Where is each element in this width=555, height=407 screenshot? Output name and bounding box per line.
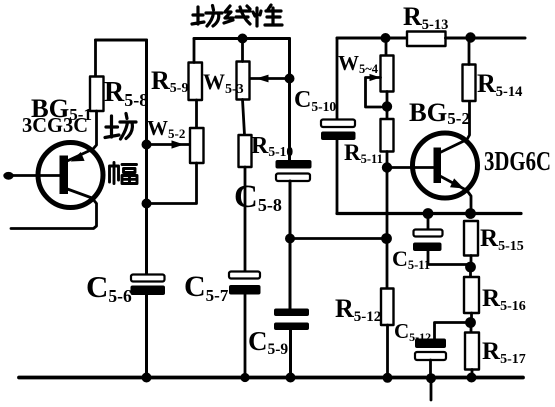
resistor R5-11 xyxy=(381,119,394,152)
wire emitter rail xyxy=(337,212,521,215)
resistor R5-12 xyxy=(381,289,394,326)
node R5-15/R5-16 junction xyxy=(465,262,476,273)
arrow W5-3 wiper arrowhead xyxy=(256,75,269,83)
wire R5-15 bottom lead xyxy=(470,256,473,268)
transistor BG5-2 base bar xyxy=(434,148,442,184)
wire R5-17 bottom lead xyxy=(471,370,474,378)
node W5-3 top junction xyxy=(238,34,248,44)
wire mid top rail R5-9/W5-3/C5-8 column xyxy=(194,37,290,40)
wire W5-4 wiper loop to bottom node xyxy=(366,78,382,108)
node ground C5-9 xyxy=(286,373,296,383)
wire W5-4 bottom lead xyxy=(386,92,389,107)
wire ground rail xyxy=(19,376,523,380)
capacitor C5-7 top plate (hollow) xyxy=(229,272,260,279)
wire R5-9 top lead xyxy=(193,39,196,63)
wire C5-10 column vertical xyxy=(336,38,339,120)
node ground C5-7 xyxy=(240,373,249,382)
wire R5-10 bottom to C5-7 xyxy=(244,167,247,272)
wire bias divider vertical (crosses emitter rail) xyxy=(386,168,389,239)
wire output stub below ground rail xyxy=(430,378,433,401)
resistor R5-13 (horizontal) xyxy=(407,32,446,47)
transistor BG5-2 circle xyxy=(413,133,478,198)
node input terminal blob xyxy=(3,172,13,180)
node W5-4 top junction xyxy=(381,33,391,43)
capacitor C5-10 bottom plate (solid) xyxy=(321,132,356,141)
resistor R5-17 xyxy=(465,333,479,370)
wire C5-11 top lead xyxy=(427,214,430,230)
svg-text:3CG3C: 3CG3C xyxy=(22,113,88,137)
capacitor C5-10 top plate (hollow) xyxy=(321,120,355,128)
node ground C5-12 xyxy=(426,373,436,383)
resistor R5-14 xyxy=(463,65,476,102)
wire BG5-2 emitter diagonal down to rail xyxy=(439,176,471,214)
capacitor C5-9 top plate (solid) xyxy=(274,309,309,317)
potentiometer W5-4 body xyxy=(381,56,394,92)
node R5-12 top junction xyxy=(381,233,392,244)
resistor R5-10 xyxy=(239,135,252,167)
wire C5-9 bottom to ground rail xyxy=(289,330,292,378)
node W5-2 bottom junction xyxy=(142,199,152,209)
wire R5-14 top lead xyxy=(468,38,471,65)
chinese title char 1 (fang) xyxy=(192,6,222,27)
resistor R5-16 xyxy=(464,277,479,313)
wire W5-3 bottom to R5-10 xyxy=(243,100,245,136)
wire BG5-1 collector diagonal down to lower-left wire xyxy=(11,189,97,229)
wire W5-2 wiper arm to node xyxy=(147,143,190,146)
wire R5-8 top lead xyxy=(94,40,97,77)
wire R5-9 to W5-2 xyxy=(195,100,198,128)
wire W5-3 top lead xyxy=(241,39,244,62)
chinese title char 3 (xing) xyxy=(253,5,282,26)
wire left mid vertical upper (rail to C5-6 top, through dots) xyxy=(145,40,148,275)
capacitor C5-9 bottom plate (solid) xyxy=(274,323,309,331)
node R5-16/R5-17 junction xyxy=(465,317,476,328)
wire BG5-2 collector diagonal up to R5-14 xyxy=(439,101,470,153)
wire C5-12 bottom to ground rail xyxy=(429,360,432,378)
node ground R5-17 xyxy=(467,373,477,383)
arrow W5-2 wiper arrowhead xyxy=(172,140,185,148)
capacitor C5-6 bottom plate (solid) xyxy=(131,286,166,296)
arrow BG5-1 emitter PNP arrowhead xyxy=(71,152,85,162)
wire R5-16 top lead xyxy=(469,267,472,277)
node emitter/R5-15 junction xyxy=(465,208,476,219)
node BG5-2 base junction xyxy=(382,162,392,172)
node R5-14 top junction xyxy=(465,32,475,42)
capacitor C5-12 bottom plate (hollow) xyxy=(415,352,446,360)
transistor BG5-1 circle xyxy=(38,143,103,208)
node ground R5-12 xyxy=(383,373,393,383)
wire W5-3 wiper arm to C5-8 column xyxy=(250,77,290,80)
capacitor C5-6 top plate (hollow) xyxy=(131,275,165,282)
node C5-11 top junction xyxy=(423,208,434,219)
wire right top rail right part (R5-13 to end) xyxy=(446,37,526,40)
wire C5-7 bottom to ground rail xyxy=(244,295,247,378)
wire C5-6 bottom to ground rail xyxy=(145,295,148,378)
capacitor C5-12 top plate (solid) xyxy=(415,339,446,349)
chinese annotation char (fang) near BG5-1 xyxy=(105,114,136,140)
node W5-4 bottom junction xyxy=(382,101,392,111)
node C5-8/R5-12 branch junction xyxy=(285,234,295,244)
arrow BG5-2 emitter NPN arrowhead xyxy=(450,178,464,188)
wire C5-8 bottom to C5-9 top xyxy=(289,181,292,309)
wire C5-10 bottom down to emitter rail corner xyxy=(336,140,339,214)
resistor R5-15 xyxy=(464,221,478,256)
wire top-left rail R5-8 top to W5-2 wiper column xyxy=(96,39,147,42)
wire BG5-1 emitter diagonal (to top) xyxy=(66,111,97,162)
wire R5-12 top lead xyxy=(386,239,389,289)
capacitor C5-11 bottom plate (solid) xyxy=(413,243,442,252)
wire BG5-2 base lead xyxy=(387,166,434,169)
wire C5-11 bottom to R5-15/R5-16 node xyxy=(428,251,471,265)
wire W5-4 top lead xyxy=(385,38,388,56)
resistor R5-8 xyxy=(90,77,104,112)
wire branch to R5-12 column xyxy=(290,237,387,240)
wire W5-2 bottom to left column xyxy=(147,163,197,204)
potentiometer W5-2 body xyxy=(190,128,204,163)
wire C5-8 column vertical upper xyxy=(288,39,291,161)
node W5-3 wiper junction on C5-8 column xyxy=(285,74,295,84)
capacitor C5-7 bottom plate (solid) xyxy=(229,285,261,295)
svg-text:3DG6C: 3DG6C xyxy=(484,146,551,176)
wire R5-11 top lead xyxy=(386,107,389,120)
transistor BG5-1 base bar xyxy=(60,156,69,195)
arrow W5-4 wiper arrowhead xyxy=(370,74,381,81)
wire C5-12 branch from R5-16/R5-17 node xyxy=(435,323,471,339)
wire R5-16 bottom lead xyxy=(470,313,473,323)
potentiometer W5-3 body xyxy=(237,62,250,100)
node ground C5-6 xyxy=(142,373,152,383)
wire R5-12 bottom to ground rail xyxy=(386,325,389,378)
wire R5-17 top lead xyxy=(470,323,473,333)
capacitor C5-8 bottom plate (hollow) xyxy=(276,174,310,182)
wire right top rail left part (C5-10 corner to R5-13) xyxy=(337,37,407,40)
capacitor C5-8 top plate (solid) xyxy=(276,160,312,169)
resistor R5-9 xyxy=(189,63,203,101)
capacitor C5-11 top plate (hollow) xyxy=(414,230,443,237)
wire BG5-1 base lead xyxy=(9,174,62,177)
node W5-2 wiper junction xyxy=(142,140,152,150)
chinese annotation char (fu) near BG5-1 xyxy=(110,163,138,184)
wire R5-11 bottom to base node xyxy=(386,152,389,168)
chinese title char 2 (xian) xyxy=(224,6,250,24)
